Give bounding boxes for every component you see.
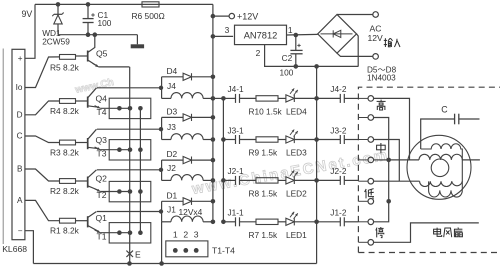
wire Q1 collector to relay J1 [97, 211, 161, 213]
label T1-T4 [212, 246, 235, 256]
label shu-ru (input) [0, 0, 1, 1]
wire Q4 emitter line [100, 107, 130, 109]
T pin2 bus wire [129, 67, 131, 264]
label J2 [167, 163, 176, 173]
svg-text:www.Ch: www.Ch [73, 77, 114, 96]
label T1 [97, 231, 107, 241]
label R4 8.2k [50, 106, 80, 116]
selector terminal 6 [358, 199, 373, 205]
selector terminal 3 [358, 137, 373, 143]
pin - of KL668 [18, 226, 23, 235]
svg-text:T1-T4: T1-T4 [212, 246, 235, 256]
capacitor C2 [290, 35, 302, 66]
transistor Q2 [76, 170, 101, 192]
svg-text:J2-1: J2-1 [228, 166, 245, 176]
svg-text:R2 8.2k: R2 8.2k [50, 186, 80, 196]
svg-text:Q5: Q5 [96, 49, 108, 59]
relay contact J1-2 [317, 217, 359, 226]
svg-text:J1-1: J1-1 [228, 208, 245, 218]
wire D pin to R4 [25, 101, 60, 115]
selector terminal 8 [358, 240, 373, 246]
label Q5 [96, 49, 108, 59]
label LED2 [286, 188, 307, 198]
label C [441, 105, 448, 115]
module T4 box [109, 98, 151, 118]
module T3 box [109, 140, 151, 160]
svg-text:+: + [18, 54, 23, 63]
svg-text:R10 1.5k: R10 1.5k [249, 106, 283, 116]
pin 3 label [225, 25, 230, 35]
label C1 100 [98, 10, 112, 28]
svg-text:J2-2: J2-2 [330, 166, 347, 176]
label J2-1 [228, 166, 245, 176]
svg-text:D1: D1 [167, 190, 178, 200]
pin 1 label [288, 25, 293, 35]
label Q1 [96, 213, 108, 223]
wire Q3 emitter line [100, 149, 130, 151]
wire Q1 emitter line [100, 232, 130, 234]
svg-text:R4 8.2k: R4 8.2k [50, 106, 80, 116]
label J3 [167, 122, 176, 132]
resistor R9 [256, 137, 286, 142]
label J1 [167, 205, 176, 215]
svg-text:J1-2: J1-2 [330, 208, 347, 218]
transistor Q4 [76, 88, 101, 109]
label gao (high) [377, 100, 386, 110]
svg-text:D3: D3 [167, 106, 178, 116]
relay contact J4-2 [317, 94, 359, 103]
label dian-feng-shan (electric fan) [434, 228, 463, 238]
module T1 pins [117, 230, 143, 235]
transistor Q5 [76, 35, 99, 67]
svg-text:R6 500Ω: R6 500Ω [132, 11, 165, 21]
svg-text:E: E [135, 250, 141, 260]
svg-text:100: 100 [280, 68, 294, 78]
svg-text:3: 3 [225, 25, 230, 35]
relay coil J2 [159, 160, 213, 180]
label AC 12V [368, 24, 384, 43]
label R7 1.5k [249, 230, 278, 240]
wire high tap to motor [374, 98, 410, 159]
bridge rectifier D5-D8 [318, 15, 357, 54]
relay coil J4 [159, 77, 213, 99]
svg-text:J4: J4 [167, 81, 176, 91]
wire C pin to R3 [25, 136, 60, 143]
resistor R1 [60, 218, 76, 223]
svg-text:LED2: LED2 [286, 188, 307, 198]
pin 3 wire [213, 35, 233, 37]
relay contact J1-1 [223, 217, 256, 226]
svg-text:J4-2: J4-2 [330, 84, 347, 94]
top 9V rail wire [35, 2, 213, 7]
wire Q5 emitter to T bus [99, 66, 130, 68]
svg-text:12Vx4: 12Vx4 [179, 207, 203, 217]
relay contact J3-2 [317, 135, 359, 144]
svg-text:9V: 9V [22, 9, 33, 19]
IC KL668 box [12, 49, 25, 239]
svg-text:D4: D4 [167, 66, 178, 76]
label WD1 2CW59 [42, 28, 70, 46]
pin A of KL668 [17, 196, 23, 205]
label R1 8.2k [50, 226, 80, 236]
label Q4 [96, 94, 108, 104]
9V label [22, 9, 33, 19]
label T4 [97, 107, 107, 117]
svg-text:LED1: LED1 [286, 230, 307, 240]
label R3 8.2k [50, 148, 80, 158]
resistor R4 [60, 99, 76, 104]
relay coil J1 [159, 201, 213, 222]
svg-text:D: D [17, 110, 23, 119]
legend T1-T4 pin box [166, 241, 208, 257]
wire bridge top to AC terminal [337, 14, 373, 16]
svg-text:Q3: Q3 [96, 135, 108, 145]
svg-text:C: C [17, 132, 23, 141]
svg-text:J4-1: J4-1 [228, 84, 245, 94]
resistor R6 [142, 2, 159, 7]
wire - pin to bottom rail [25, 231, 34, 264]
diode D4 [162, 73, 213, 80]
AC input terminal bottom [373, 54, 379, 60]
resistor R8 [256, 178, 286, 183]
pin Io of KL668 [16, 83, 23, 92]
ground symbol [131, 35, 144, 49]
wire stop terminal loop [374, 223, 479, 242]
fan unit dashed enclosure [358, 87, 500, 252]
svg-text:100: 100 [98, 18, 112, 28]
label J4-2 [330, 84, 347, 94]
svg-text:J1: J1 [167, 205, 176, 215]
LED LED2 [286, 170, 317, 184]
label 12Vx4 [179, 207, 203, 217]
wire Io pin to R5 [25, 57, 60, 88]
relay coil J3 [159, 117, 213, 139]
pin + of KL668 [18, 54, 23, 63]
+12V output terminal [213, 11, 258, 21]
svg-text:R1 8.2k: R1 8.2k [50, 226, 80, 236]
AC input terminal top [373, 12, 379, 18]
9V node wire to ground [58, 32, 137, 37]
wire common to motor winding [389, 159, 419, 161]
legend pin numbers 1 2 3 [173, 230, 199, 240]
selector common bus wire [374, 118, 391, 222]
pin 1 wire to bridge [287, 33, 318, 38]
wire Q4 collector to relay J4 [97, 87, 161, 89]
module T3 pins [117, 147, 143, 152]
svg-text:−: − [18, 226, 23, 235]
selector terminal 2 [358, 115, 373, 121]
svg-text:D2: D2 [167, 149, 178, 159]
wire low tap to motor winding [374, 180, 420, 182]
relay contact J2-2 [317, 176, 359, 185]
wire B pin to R2 [25, 169, 60, 181]
svg-text:LED3: LED3 [286, 148, 307, 158]
selector terminal 1 [358, 96, 373, 102]
resistor R7 [256, 219, 286, 224]
pin 2 label [256, 48, 261, 58]
svg-text:12V: 12V [368, 33, 384, 43]
svg-text:Q2: Q2 [96, 174, 108, 184]
capacitor C1 [83, 4, 95, 34]
selector terminal 5 [358, 178, 373, 184]
svg-text:A: A [17, 196, 23, 205]
wire bridge bottom to AC terminal [337, 53, 373, 56]
left page-edge line [2, 49, 4, 245]
svg-text:R7 1.5k: R7 1.5k [249, 230, 278, 240]
selector terminal 7 [358, 219, 373, 225]
regulator AN7812 [235, 25, 287, 44]
svg-text:Q4: Q4 [96, 94, 108, 104]
label J4-1 [228, 84, 245, 94]
svg-text:LED4: LED4 [286, 106, 307, 116]
label D3 [167, 106, 178, 116]
pin D of KL668 [17, 110, 23, 119]
svg-text:J3-1: J3-1 [228, 125, 245, 135]
label J2-2 [330, 166, 347, 176]
svg-text:2: 2 [256, 48, 261, 58]
LED LED4 [286, 88, 317, 102]
T pin3 bus wire [139, 108, 141, 232]
transistor Q3 [76, 129, 101, 150]
label J1-1 [228, 208, 245, 218]
pin 2 wire down [265, 45, 359, 69]
svg-text:R5 8.2k: R5 8.2k [50, 63, 80, 73]
diode D2 [162, 157, 213, 164]
label R5 8.2k [50, 63, 80, 73]
fan motor [407, 135, 471, 199]
LED LED1 [286, 212, 317, 226]
wire Q2 emitter line [100, 191, 130, 193]
module T2 box [109, 181, 151, 201]
bottom ground wire [33, 261, 316, 266]
pin B of KL668 [17, 165, 23, 174]
label R6 500 ohm [132, 11, 165, 21]
svg-text:R9 1.5k: R9 1.5k [249, 148, 278, 158]
wire motor right tap [462, 159, 480, 161]
label zhong (middle) [377, 143, 386, 153]
pin C of KL668 [17, 132, 23, 141]
resistor R3 [60, 140, 76, 145]
resistor R10 [256, 96, 286, 101]
label LED3 [286, 148, 307, 158]
IC label KL668 [2, 244, 27, 254]
label R10 1.5k [249, 106, 283, 116]
label D2 [167, 149, 178, 159]
label D5~D8 1N4003 [367, 65, 397, 82]
svg-text:2: 2 [183, 230, 188, 240]
wire bridge right to ground [357, 34, 359, 67]
label R9 1.5k [249, 148, 278, 158]
label LED1 [286, 230, 307, 240]
diode D1 [162, 198, 213, 205]
relay contact J4-1 [223, 94, 256, 103]
label LED4 [286, 106, 307, 116]
svg-text:+12V: +12V [237, 11, 258, 21]
label di (low) [365, 189, 374, 199]
label J1-2 [330, 208, 347, 218]
svg-text:KL668: KL668 [2, 244, 27, 254]
svg-text:1: 1 [173, 230, 178, 240]
svg-text:C2: C2 [282, 53, 293, 63]
diode D3 [162, 114, 213, 121]
label ting (stop) [376, 227, 384, 238]
+12V rail vertical wire [211, 4, 216, 224]
module T1 box [109, 223, 151, 243]
wire + pin to 9V rail [25, 4, 35, 58]
svg-text:Io: Io [16, 83, 23, 92]
zener diode WD1 [52, 4, 63, 34]
label J4 [167, 81, 176, 91]
relay contact J2-1 [223, 176, 256, 185]
label R2 8.2k [50, 186, 80, 196]
wire J1 left to bottom rail [161, 222, 163, 264]
transistor Q1 [76, 212, 101, 233]
label T3 [97, 148, 107, 158]
module T2 pins [117, 189, 143, 194]
svg-text:J3: J3 [167, 122, 176, 132]
wire mid tap to motor [374, 140, 400, 182]
module T4 pins [117, 106, 143, 111]
label J3-1 [228, 125, 245, 135]
label E [135, 250, 141, 260]
wire Q2 collector to relay J2 [97, 169, 161, 171]
svg-text:J2: J2 [167, 163, 176, 173]
svg-text:1: 1 [288, 25, 293, 35]
label Q3 [96, 135, 108, 145]
svg-text:R8 1.5k: R8 1.5k [249, 188, 278, 198]
svg-text:1N4003: 1N4003 [367, 73, 396, 82]
svg-text:J3-2: J3-2 [330, 125, 347, 135]
label C2 100 [280, 53, 294, 78]
resistor R2 [60, 179, 76, 184]
label T2 [97, 190, 107, 200]
svg-text:R3 8.2k: R3 8.2k [50, 148, 80, 158]
label D4 [167, 66, 178, 76]
label Q2 [96, 174, 108, 184]
wire Q3 collector to relay J3 [97, 128, 161, 130]
svg-text:2CW59: 2CW59 [42, 37, 70, 47]
svg-text:3: 3 [194, 230, 199, 240]
svg-text:AN7812: AN7812 [244, 31, 278, 41]
label D1 [167, 190, 178, 200]
label R8 1.5k [249, 188, 278, 198]
left bus of indicator rows [213, 96, 226, 224]
capacitor C [421, 114, 480, 149]
label shu-ru (input) glyphs [384, 38, 400, 47]
svg-text:B: B [17, 165, 23, 174]
relay contact J3-1 [223, 135, 256, 144]
LED LED3 [286, 130, 317, 144]
E crystal symbol [126, 251, 133, 257]
resistor R5 [60, 55, 76, 60]
svg-text:Q1: Q1 [96, 213, 108, 223]
svg-text:C: C [441, 105, 448, 115]
label J3-2 [330, 125, 347, 135]
wire A pin to R1 [25, 200, 60, 220]
right bus wire [314, 66, 319, 263]
selector terminal 4 [358, 157, 373, 163]
